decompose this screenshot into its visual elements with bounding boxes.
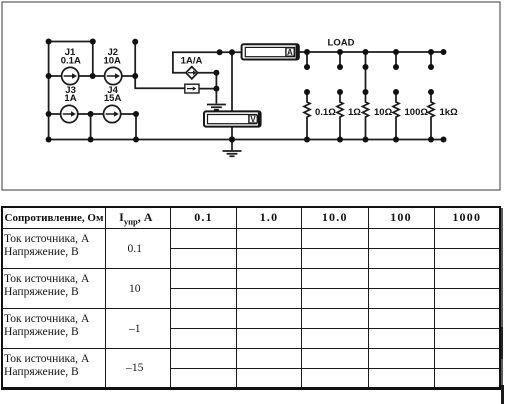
svg-text:0.1Ω: 0.1Ω [315, 107, 336, 118]
svg-text:1A/A: 1A/A [181, 56, 203, 67]
svg-text:V: V [250, 115, 256, 124]
svg-text:15A: 15A [104, 93, 122, 104]
svg-text:1Ω: 1Ω [348, 107, 361, 118]
svg-text:A: A [287, 48, 293, 57]
svg-text:0.1A: 0.1A [61, 55, 81, 66]
svg-text:10Ω: 10Ω [374, 107, 393, 118]
svg-text:1A: 1A [64, 93, 76, 104]
svg-text:10A: 10A [103, 55, 121, 66]
svg-text:LOAD: LOAD [328, 38, 355, 49]
svg-text:1kΩ: 1kΩ [440, 107, 459, 118]
svg-text:100Ω: 100Ω [405, 107, 429, 118]
